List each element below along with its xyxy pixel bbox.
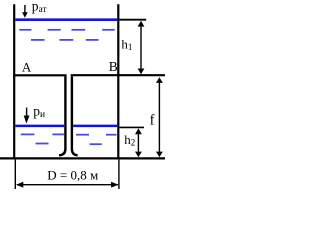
svg-text:D = 0,8 м: D = 0,8 м [47, 168, 98, 183]
lower chamber top right line extended as B level reference [71, 74, 165, 76]
dimension D extension lines [15, 160, 119, 189]
upper water dashes row 1 [19, 29, 114, 31]
gauge pressure arrow [24, 108, 30, 124]
tube right wall [72, 76, 78, 155]
lower water surface right [73, 125, 117, 128]
svg-text:f: f [150, 113, 155, 129]
svg-text:A: A [22, 60, 32, 75]
upper water surface [15, 18, 117, 21]
lower water surface left [15, 125, 64, 128]
dimension D line with arrows [16, 182, 118, 188]
dimension h2 [119, 127, 144, 157]
lower chamber top left line [13, 74, 67, 76]
lower water dashes right chamber [76, 135, 117, 145]
dimension h1 [119, 20, 146, 75]
tube left wall [59, 76, 65, 155]
atmospheric pressure arrow [22, 5, 28, 18]
tank bottom [0, 157, 165, 159]
dimension f [156, 77, 163, 157]
lower water dashes left chamber [21, 134, 64, 143]
svg-text:B: B [109, 59, 118, 74]
right tank wall [117, 4, 119, 159]
upper water dashes row 2 [31, 39, 99, 41]
left tank wall [13, 4, 15, 159]
